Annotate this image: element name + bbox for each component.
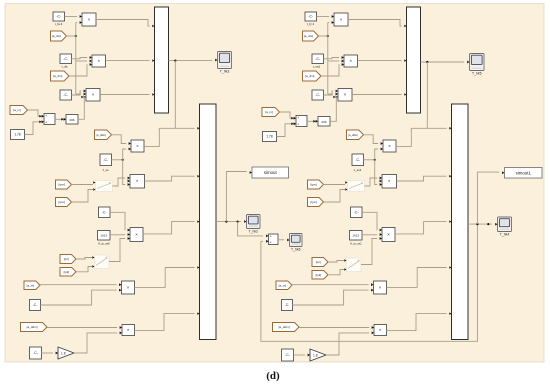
svg-text:[a_m]: [a_m]: [27, 283, 35, 287]
wire C6 to P7': [293, 290, 369, 305]
svg-text:[tym]: [tym]: [59, 200, 66, 204]
from tag [tyk]: [60, 268, 76, 277]
from tag [tyk] ': [312, 271, 328, 280]
from tag [a_ddm] mid: [95, 130, 112, 140]
wire SW1 to P5': [365, 178, 378, 186]
wire branch down to sum: [238, 222, 264, 236]
wire S1 to cos: [55, 118, 64, 121]
wire mux A branch down to mux B input 1: [174, 61, 176, 129]
wire a_m to S1: [28, 110, 42, 117]
svg-text:-C-: -C-: [33, 303, 38, 307]
wire P8 to mux B: [135, 314, 195, 331]
scope T_hk4: [495, 217, 511, 237]
svg-text:cos: cos: [70, 118, 75, 122]
product P8': [372, 325, 390, 336]
svg-text:[tym]: [tym]: [59, 183, 66, 187]
switch SW2: [92, 255, 109, 269]
wire mux A to scope T_hk3: [169, 60, 213, 62]
product P7: [119, 281, 138, 294]
wire P1' to mux: [348, 20, 402, 27]
wire 1613 to P6: [110, 234, 125, 236]
svg-text:-C-: -C-: [103, 158, 108, 162]
wire P6 to mux B: [143, 222, 195, 234]
product P7': [371, 281, 390, 294]
wire a_m to S1': [280, 112, 294, 119]
constant 1613 (K_ty): [98, 231, 111, 246]
from tag [tyr] ': [312, 258, 328, 267]
constant C6' -C-: [282, 300, 293, 311]
product P2': [342, 55, 361, 67]
svg-text:-C-: -C-: [63, 93, 68, 97]
product P1': [332, 13, 352, 26]
to-workspace block simout1: [502, 168, 542, 179]
wire from-tag a_dm bus vertical: [67, 23, 88, 95]
mux MUX-A' (tall): [404, 7, 420, 113]
sum block before T_hk6: [266, 234, 278, 245]
wire P6 to mux B': [395, 222, 447, 234]
svg-text:T_hk5: T_hk5: [472, 72, 482, 76]
svg-text:K_ty_ss1: K_ty_ss1: [350, 242, 362, 246]
mux MUX-B' input arrow y267.5: [449, 266, 451, 269]
svg-text:[tyk]: [tyk]: [316, 273, 322, 277]
constant C3' -C-: [312, 90, 324, 100]
wire P3 to mux: [100, 94, 150, 96]
caption (d): [266, 370, 280, 382]
constant C1 -C- (t_f label): [53, 12, 65, 26]
wire mux A' to scope T_hk5: [421, 61, 465, 63]
mux MUX-B input arrow y176.2: [197, 175, 199, 178]
svg-text:[a_ddm]: [a_ddm]: [96, 133, 106, 137]
gain G1: [56, 347, 74, 359]
wire C6 to P7: [41, 290, 117, 305]
wire P7 to mux B: [135, 268, 195, 288]
wire P2 to mux: [106, 60, 150, 62]
svg-text:J_ss: J_ss: [102, 168, 109, 172]
product P6: [128, 228, 147, 242]
wire tym lower to SW1: [72, 190, 94, 203]
product P4: [129, 140, 148, 152]
svg-text:t_fa 2: t_fa 2: [55, 22, 63, 26]
svg-text:T_hk4: T_hk4: [500, 233, 510, 237]
from tag [a_m] bottom: [24, 281, 40, 290]
svg-text:+: +: [270, 240, 272, 244]
wire tym upper to SW1': [324, 184, 346, 186]
from tag [tym] lower ': [308, 198, 324, 207]
wire tyr to SW2: [76, 258, 92, 260]
wire a_m bottom to P7': [292, 284, 369, 286]
constant C4' -C- (J_ss): [352, 154, 364, 172]
wire S1 to cos': [307, 120, 316, 123]
svg-text:cos: cos: [322, 120, 327, 124]
svg-text:-C-: -C-: [102, 210, 107, 214]
wire 1.78 to S1: [25, 121, 42, 135]
scope T_hk5: [467, 54, 484, 76]
wire a_dm lower to P2: [69, 65, 87, 77]
mux MUX-B input arrow y313.6: [197, 312, 199, 315]
svg-text:-C-: -C-: [354, 210, 359, 214]
constant C2 -C- (t_s label): [60, 54, 72, 69]
wire tyr to SW2': [328, 261, 344, 263]
svg-text:-C-: -C-: [56, 15, 61, 19]
wire mux B to scope T_hk2: [216, 221, 241, 223]
product P3': [336, 89, 356, 102]
from tag [a_dm] lower ': [303, 71, 322, 81]
svg-text:1.78: 1.78: [266, 135, 272, 139]
svg-text:1.78: 1.78: [14, 133, 20, 137]
constant C7 -C-: [30, 347, 42, 359]
svg-text:-C-: -C-: [355, 158, 360, 162]
wire P7 to mux B': [387, 268, 447, 288]
wire branch up to simout: [226, 172, 246, 222]
wire a_ddm to P4: [112, 135, 127, 144]
from tag [a_ddm] bottom: [21, 323, 48, 332]
wire SW2 to P6': [361, 239, 377, 265]
mux MUX-B' (tall): [452, 104, 469, 340]
wire C7 to G1': [294, 354, 306, 356]
wire tym lower to SW1': [324, 190, 346, 203]
wire tym upper to SW1: [72, 184, 94, 186]
wire 1.78 to S1': [277, 123, 294, 137]
constant 1.78: [11, 130, 25, 140]
constant C7' -C-: [282, 349, 294, 361]
svg-text:[a_ddm]: [a_ddm]: [348, 133, 358, 137]
gain G1': [308, 349, 326, 361]
svg-text:-C-: -C-: [315, 57, 320, 61]
product P1: [80, 13, 100, 26]
wire P4 to mux B: [144, 128, 195, 146]
wire cos to P3': [330, 96, 336, 122]
wire a_ddm to P4': [364, 135, 379, 144]
constant 1.78 ': [263, 132, 277, 142]
svg-text:[a_m]: [a_m]: [13, 108, 21, 112]
svg-text:[a_ddm]: [a_ddm]: [279, 325, 290, 329]
svg-text:T_hk2: T_hk2: [249, 230, 259, 234]
wire P8 to mux B': [387, 314, 447, 331]
wire C5 to P6: [110, 212, 125, 230]
wire C4 to P4 and P5: [112, 149, 127, 185]
wire from-tag a_dm bus vertical ': [319, 23, 340, 95]
trig block cos': [316, 117, 330, 127]
svg-text:[tyk]: [tyk]: [64, 270, 70, 274]
product P3: [84, 89, 104, 102]
svg-text:-C-: -C-: [315, 93, 320, 97]
from tag [a_m] bottom ': [276, 281, 292, 290]
from tag [tym] upper: [56, 180, 72, 189]
from tag [a_dm] upper: [51, 31, 67, 41]
product P4': [381, 140, 400, 152]
wire mux A' branch down to mux B' input 1: [426, 62, 428, 128]
from tag [a_ddm] bottom ': [273, 323, 300, 332]
svg-text:+: +: [270, 235, 272, 239]
wire C2' to P2: [324, 58, 340, 59]
from tag [a_m] left: [10, 106, 28, 115]
scope T_hk2: [244, 215, 260, 234]
mux MUX-B' input arrow y313.6: [449, 312, 451, 315]
from tag [a_dm] lower: [51, 71, 70, 81]
svg-text:[a_m]: [a_m]: [279, 283, 287, 287]
from tag [tym] lower: [56, 198, 72, 207]
trig block cos: [64, 115, 78, 125]
svg-text:1.8: 1.8: [313, 353, 318, 357]
constant C5' -C-: [351, 207, 363, 218]
constant 1613 ' (K_ty): [350, 231, 363, 246]
svg-text:[tyr]: [tyr]: [64, 257, 69, 261]
svg-text:[tyr]: [tyr]: [316, 260, 321, 264]
wire a_dm lower to P2': [321, 65, 339, 77]
wire sum to scope T_hk6: [278, 239, 284, 241]
svg-text:[a_dm]: [a_dm]: [53, 74, 62, 78]
svg-text:K_ty_ss6: K_ty_ss6: [98, 242, 110, 246]
wire G1 to P8': [326, 333, 369, 355]
sum S1': [294, 116, 307, 127]
from tag [tyr]: [60, 255, 76, 264]
svg-text:[a_m]: [a_m]: [265, 110, 273, 114]
wire P5 to mux B: [145, 176, 195, 181]
wire C3 to P3: [72, 91, 82, 95]
wire C7 to G1: [42, 352, 54, 354]
from tag [tym] upper ': [308, 180, 324, 189]
constant C1' -C- (t_f label): [305, 12, 317, 26]
constant C4 -C- (J_ss): [100, 154, 112, 172]
wire a_m bottom to P7: [40, 284, 117, 286]
wire G1 to P8: [74, 333, 117, 353]
svg-text:T_hk3: T_hk3: [220, 70, 230, 74]
svg-text:-C-: -C-: [33, 351, 38, 355]
svg-text:J_ss1: J_ss1: [354, 168, 362, 172]
product P2: [90, 55, 109, 67]
wire a_ddm bottom to P8: [47, 327, 117, 329]
constant C2' -C- (t_s label): [312, 54, 324, 69]
mux MUX-B' input arrow y176.2: [449, 175, 451, 178]
svg-text:simout1: simout1: [516, 170, 532, 175]
sum S1: [42, 114, 55, 125]
svg-text:[a_dm]: [a_dm]: [304, 34, 313, 38]
wire C4 to P4 and P5': [364, 149, 379, 185]
wire mux B' to scope T_hk4: [468, 223, 492, 225]
scope T_hk6: [287, 234, 302, 252]
from tag [a_dm] upper ': [303, 31, 319, 41]
product P5: [128, 175, 148, 189]
svg-text:(d): (d): [266, 370, 280, 382]
wire P4 to mux B': [396, 128, 447, 146]
svg-text:-C-: -C-: [285, 303, 290, 307]
svg-text:-C-: -C-: [308, 15, 313, 19]
product P6': [380, 228, 399, 242]
mux MUX-B input arrow y221.6: [197, 220, 199, 223]
svg-text:1.8: 1.8: [61, 351, 66, 355]
product P8: [120, 325, 138, 336]
svg-text:-C-: -C-: [285, 353, 290, 357]
svg-text:1613: 1613: [100, 233, 107, 237]
svg-text:[a_ddm]: [a_ddm]: [27, 325, 38, 329]
wire C1 to P1: [65, 16, 78, 18]
wire cos to P3: [78, 96, 84, 120]
svg-text:[tym]: [tym]: [311, 183, 318, 187]
wire C5 to P6': [362, 212, 377, 230]
mux MUX-B input arrow y267.5: [197, 266, 199, 269]
wire tyk to SW2': [328, 270, 344, 275]
svg-text:simout: simout: [264, 170, 278, 175]
to-workspace block simout: [250, 167, 289, 178]
svg-text:+: +: [297, 122, 299, 126]
mux MUX-B' input arrow y221.6: [449, 220, 451, 223]
svg-text:+: +: [45, 120, 47, 124]
scope T_hk3: [215, 52, 231, 74]
wire a_ddm bottom to P8': [299, 327, 369, 329]
mux MUX-A (tall): [152, 7, 168, 113]
wire tyk to SW2: [76, 267, 92, 272]
mux MUX-B input arrow y128.3: [197, 127, 199, 130]
svg-text:t_sa1: t_sa1: [313, 65, 321, 69]
wire P1 to mux: [96, 20, 150, 27]
svg-text:t_fy 4: t_fy 4: [307, 22, 315, 26]
wire SW1 to P5: [113, 178, 126, 186]
svg-text:[a_dm]: [a_dm]: [52, 34, 61, 38]
wire SW2 to P6: [109, 239, 125, 262]
wire cross-feed from right mux B to sum: [261, 224, 478, 341]
constant C6 -C-: [30, 300, 41, 311]
wire P3' to mux: [352, 94, 402, 96]
switch SW1: [93, 181, 112, 192]
svg-text:+: +: [297, 116, 299, 120]
product P5': [380, 175, 400, 189]
svg-text:-C-: -C-: [63, 57, 68, 61]
wire 1613 to P6': [362, 234, 377, 236]
wire C2 to P2: [72, 58, 88, 59]
svg-text:1613: 1613: [352, 233, 359, 237]
mux MUX-B (tall): [200, 104, 217, 340]
svg-text:t_da: t_da: [61, 65, 67, 69]
switch SW2': [344, 258, 361, 272]
wire C1' to P1: [317, 16, 330, 18]
svg-text:[tym]: [tym]: [311, 200, 318, 204]
mux MUX-B' input arrow y128.3: [449, 127, 451, 130]
switch SW1': [345, 181, 364, 192]
svg-text:+: +: [45, 114, 47, 118]
wire branch up to simout1: [477, 172, 499, 224]
wire P5 to mux B': [397, 176, 447, 181]
svg-text:[a_dm]: [a_dm]: [305, 74, 314, 78]
wire C3' to P3: [324, 91, 334, 95]
wire P2' to mux: [358, 60, 402, 62]
constant C5 -C-: [99, 207, 111, 218]
svg-text:T_hk6: T_hk6: [291, 248, 301, 252]
constant C3 -C-: [60, 90, 72, 100]
from tag [a_m] left ': [262, 108, 280, 117]
from tag [a_ddm] mid ': [347, 130, 364, 140]
